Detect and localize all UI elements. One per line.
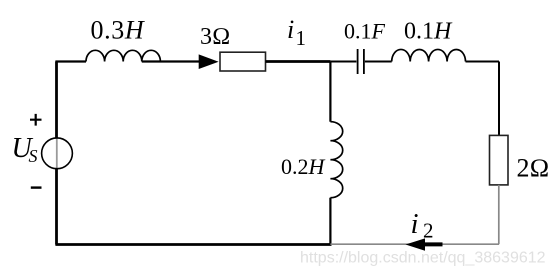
svg-text:2: 2 bbox=[423, 219, 434, 243]
svg-text:3Ω: 3Ω bbox=[200, 24, 230, 50]
svg-text:0.1F: 0.1F bbox=[344, 18, 386, 43]
svg-text:2Ω: 2Ω bbox=[517, 153, 550, 182]
svg-text:0.2H: 0.2H bbox=[281, 154, 326, 179]
svg-text:https://blog.csdn.net/qq_38639: https://blog.csdn.net/qq_38639612 bbox=[300, 250, 546, 267]
svg-text:0.1H: 0.1H bbox=[404, 18, 453, 44]
svg-text:1: 1 bbox=[296, 26, 307, 50]
svg-text:i: i bbox=[411, 208, 419, 240]
svg-text:i: i bbox=[287, 15, 294, 44]
svg-text:S: S bbox=[29, 146, 38, 166]
svg-text:0.3H: 0.3H bbox=[91, 16, 145, 45]
